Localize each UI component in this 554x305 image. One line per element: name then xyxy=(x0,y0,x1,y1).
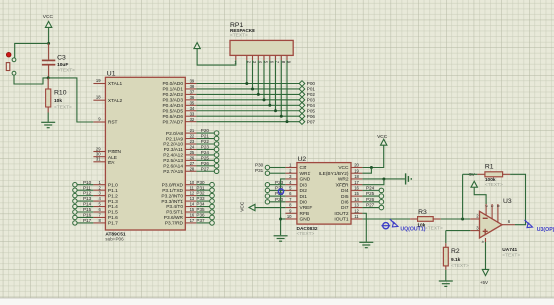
svg-text:P3.6/WR: P3.6/WR xyxy=(164,215,184,221)
U2 pin 10 GND xyxy=(285,214,310,223)
svg-text:10uF: 10uF xyxy=(57,62,68,68)
node junction feedback xyxy=(461,218,464,221)
wire R1 right to output xyxy=(510,174,525,224)
U1 pin 29 PSEN xyxy=(93,146,121,155)
svg-text:sub=P06: sub=P06 xyxy=(105,237,124,242)
svg-text:C3: C3 xyxy=(57,55,66,62)
wire RP1 pin 5 to P03 net xyxy=(263,60,265,100)
svg-text:CS: CS xyxy=(300,165,307,171)
svg-text:P30: P30 xyxy=(196,180,205,185)
svg-text:GND: GND xyxy=(300,177,311,183)
resistor R2 xyxy=(443,231,470,270)
U1 pin 38 P0.1/AD1 wire to terminal P01 xyxy=(162,84,315,93)
U2 pin 13 DI7 xyxy=(341,203,362,212)
svg-text:16: 16 xyxy=(190,213,195,218)
U1 pin 8 P1.7 with terminal P17 xyxy=(73,218,118,227)
wire VCC to button top xyxy=(15,43,49,58)
svg-text:P3.5/T1: P3.5/T1 xyxy=(166,210,183,216)
svg-text:12: 12 xyxy=(190,191,195,196)
svg-text:ALE: ALE xyxy=(108,155,117,161)
svg-text:27: 27 xyxy=(190,161,195,166)
svg-text:U2: U2 xyxy=(298,156,307,163)
U1 pin 27 P2.6/A14 with terminal P26 xyxy=(163,161,219,170)
probe ring on U2 ground wire xyxy=(278,189,283,194)
svg-text:P12: P12 xyxy=(83,191,92,196)
U1 pin 3 P1.2 with terminal P12 xyxy=(73,191,118,200)
svg-text:P00: P00 xyxy=(307,81,316,86)
resistor R3 xyxy=(410,209,443,232)
U1 pin 14 P3.4/T0 with terminal P34 xyxy=(166,202,214,211)
svg-text:+5V: +5V xyxy=(480,280,488,285)
svg-text:R3: R3 xyxy=(418,209,427,216)
svg-text:10k: 10k xyxy=(54,98,62,104)
svg-text:U1: U1 xyxy=(107,70,116,77)
svg-text:15: 15 xyxy=(354,191,359,196)
U2 pin 20 VCC xyxy=(338,163,362,172)
svg-text:35: 35 xyxy=(190,100,195,105)
svg-text:5: 5 xyxy=(496,205,500,207)
U2 pin 6 DI1 xyxy=(285,191,307,200)
U1 pin 24 P2.3/A11 with terminal P23 xyxy=(164,145,219,154)
U1 pin 2 P1.1 with terminal P11 xyxy=(73,185,118,194)
svg-text:<TEXT>: <TEXT> xyxy=(297,231,315,237)
svg-text:21: 21 xyxy=(190,128,195,133)
svg-text:WR1: WR1 xyxy=(300,171,311,177)
svg-text:VCC: VCC xyxy=(43,14,54,20)
svg-text:24: 24 xyxy=(190,145,195,150)
U1 pin 5 P1.4 with terminal P14 xyxy=(73,202,118,211)
svg-text:<TEXT>: <TEXT> xyxy=(425,226,443,232)
svg-text:<TEXT>: <TEXT> xyxy=(57,68,75,74)
svg-text:14: 14 xyxy=(190,202,195,207)
svg-text:DI3: DI3 xyxy=(300,182,308,188)
svg-text:P05: P05 xyxy=(307,108,316,113)
wire GND pin10 branch xyxy=(281,218,286,220)
svg-text:P3.0/RXD: P3.0/RXD xyxy=(162,182,184,188)
U1 pin 7 P1.6 with terminal P16 xyxy=(73,213,118,222)
node junction on P01 xyxy=(251,87,254,90)
U1 pin 1 P1.0 with terminal P10 xyxy=(73,180,118,189)
resistor R10 xyxy=(46,78,72,113)
svg-text:P24: P24 xyxy=(201,150,210,155)
U1 pin 12 P3.2/INT0 with terminal P32 xyxy=(161,191,214,200)
node junction on P05 xyxy=(274,109,277,112)
terminal P23 to U2 DI3 xyxy=(265,180,285,187)
svg-text:R10: R10 xyxy=(54,90,67,97)
wire VCC to U2 VCC pin xyxy=(362,145,383,167)
svg-text:DI1: DI1 xyxy=(300,194,308,200)
svg-text:4: 4 xyxy=(481,241,485,243)
svg-text:P04: P04 xyxy=(307,103,316,108)
svg-text:17: 17 xyxy=(190,218,195,223)
U1 pin 23 P2.2/A10 with terminal P22 xyxy=(163,139,219,148)
svg-text:9.1k: 9.1k xyxy=(451,257,461,263)
svg-text:U3(OP): U3(OP) xyxy=(537,227,554,233)
svg-text:ILE(BY1/BY2): ILE(BY1/BY2) xyxy=(319,171,349,177)
U2 pin 3 GND xyxy=(285,174,310,183)
U2 pin 9 RFB xyxy=(285,208,309,217)
U3 pin 4 V- xyxy=(481,238,486,243)
node junction XFER to WR2 net xyxy=(382,177,385,180)
svg-text:U3: U3 xyxy=(503,198,512,205)
svg-text:P17: P17 xyxy=(83,218,92,223)
U2 pin 15 DI5 xyxy=(341,191,362,200)
U1 pin 15 P3.5/T1 with terminal P35 xyxy=(166,207,214,216)
svg-text:P31: P31 xyxy=(255,168,264,173)
svg-text:IOUT1: IOUT1 xyxy=(334,217,348,223)
svg-text:13: 13 xyxy=(354,203,359,208)
svg-text:10: 10 xyxy=(190,180,195,185)
svg-text:25: 25 xyxy=(190,150,195,155)
svg-text:P2.0/A8: P2.0/A8 xyxy=(166,131,183,137)
svg-text:P2.1/A9: P2.1/A9 xyxy=(166,136,183,142)
U1 pin 39 P0.0/AD0 wire to terminal P00 xyxy=(162,79,315,88)
wire R1 left to inverting node xyxy=(462,174,464,219)
terminal P27 to U2 DI7 xyxy=(362,203,383,210)
node junction ILE to VCC xyxy=(370,166,373,169)
U3 pin 2 inverting input xyxy=(470,214,479,219)
svg-text:P0.5/AD5: P0.5/AD5 xyxy=(162,108,183,114)
svg-text:39: 39 xyxy=(190,79,195,84)
U1 pin 10 P3.0/RXD with terminal P30 xyxy=(162,180,215,189)
terminal P22 to U2 DI2 xyxy=(265,185,285,192)
svg-text:P34: P34 xyxy=(196,202,205,207)
resistor R1 feedback xyxy=(463,163,511,187)
power +5V terminal below U3 pin 4 xyxy=(480,242,489,285)
svg-text:GND: GND xyxy=(300,217,311,223)
capacitor C3 xyxy=(42,43,75,78)
svg-text:UA741: UA741 xyxy=(502,247,517,253)
svg-text:P25: P25 xyxy=(201,155,210,160)
wire R3 to op-amp inverting input xyxy=(441,218,471,220)
U2 pin 14 DI6 xyxy=(341,197,362,206)
svg-text:P37: P37 xyxy=(196,218,205,223)
svg-text:DI7: DI7 xyxy=(341,205,349,211)
terminal P30 to U2 CS xyxy=(255,163,285,170)
ground below R2 xyxy=(439,281,453,286)
U1 pin 28 P2.7/A15 with terminal P27 xyxy=(163,166,219,175)
svg-text:RESPACK8: RESPACK8 xyxy=(230,28,255,33)
svg-text:28: 28 xyxy=(190,166,195,171)
terminal P31 to U2 WR1 xyxy=(255,168,285,175)
svg-text:P22: P22 xyxy=(201,139,210,144)
svg-text:XTAL2: XTAL2 xyxy=(108,98,123,104)
svg-text:P0.0/AD0: P0.0/AD0 xyxy=(162,81,183,87)
svg-text:P03: P03 xyxy=(307,98,316,103)
svg-text:<TEXT>: <TEXT> xyxy=(502,253,520,259)
U2 pin 19 ILE(BY1/BY2) xyxy=(319,168,363,177)
svg-text:P0.6/AD6: P0.6/AD6 xyxy=(162,114,183,120)
ground below IOUT2 xyxy=(359,242,373,247)
svg-text:P1.3: P1.3 xyxy=(108,199,118,205)
resistor pack RP1 RESPACK-8 xyxy=(230,22,293,65)
voltage probe U3(OP) xyxy=(525,220,554,233)
U2 pin 7 DI0 xyxy=(285,197,307,206)
U1 pin 22 P2.1/A9 with terminal P21 xyxy=(166,134,219,143)
svg-text:P30: P30 xyxy=(255,163,264,168)
svg-text:P3.1/TXD: P3.1/TXD xyxy=(162,188,183,194)
U2 pin 1 CS xyxy=(285,163,306,172)
svg-text:P1.4: P1.4 xyxy=(108,204,118,210)
svg-text:P3.2/INT0: P3.2/INT0 xyxy=(161,193,183,199)
node junction at VCC xyxy=(47,42,50,45)
svg-text:33: 33 xyxy=(190,111,195,116)
U1 pin 18 XTAL2 xyxy=(93,95,122,104)
svg-text:P2.7/A15: P2.7/A15 xyxy=(163,169,183,175)
svg-text:17: 17 xyxy=(354,180,359,185)
U3 pin 3 non-inverting input xyxy=(470,225,479,230)
svg-text:DI4: DI4 xyxy=(341,188,349,194)
svg-text:P07: P07 xyxy=(307,119,316,124)
wire RP1 pin 7 to P05 net xyxy=(275,60,277,110)
U2 pin 16 DI4 xyxy=(341,185,362,194)
U2 pin 8 VREF xyxy=(285,203,312,212)
svg-text:VCC: VCC xyxy=(377,134,388,140)
svg-text:16: 16 xyxy=(354,185,359,190)
node junction RST net xyxy=(47,76,50,79)
U1 pin 36 P0.3/AD3 wire to terminal P03 xyxy=(162,95,315,104)
svg-text:DI0: DI0 xyxy=(300,200,308,206)
svg-text:14: 14 xyxy=(354,197,359,202)
power VCC terminal above U2 xyxy=(377,134,388,145)
wire VCC to VREF xyxy=(255,207,285,209)
svg-text:P27: P27 xyxy=(366,203,375,208)
svg-text:R2: R2 xyxy=(451,248,460,255)
wire RP1 pin 4 to P02 net xyxy=(257,60,259,94)
svg-text:P11: P11 xyxy=(83,185,91,190)
current probe UQ(OUT1) xyxy=(381,219,425,232)
svg-text:37: 37 xyxy=(190,90,195,95)
node junction on P03 xyxy=(263,98,266,101)
svg-text:P26: P26 xyxy=(366,197,375,202)
op-amp U3 UA741 body xyxy=(480,198,521,259)
svg-text:DAC0832: DAC0832 xyxy=(297,226,318,232)
wire WR2 to ground xyxy=(362,178,405,180)
U1 pin 31 EA xyxy=(93,157,115,166)
svg-text:P3.4/T0: P3.4/T0 xyxy=(166,204,183,210)
U2 pin 18 WR2 xyxy=(338,174,363,183)
node junction GND pin 10 xyxy=(279,217,282,220)
ground below R10 xyxy=(41,122,55,127)
svg-text:<TEXT>: <TEXT> xyxy=(230,33,248,39)
svg-text:VCC: VCC xyxy=(240,201,246,212)
node junction on P02 xyxy=(257,93,260,96)
svg-text:EA: EA xyxy=(108,160,115,166)
U1 pin 21 P2.0/A8 with terminal P20 xyxy=(166,128,219,137)
power VCC terminal for RP1 xyxy=(194,43,200,49)
svg-text:IOUT2: IOUT2 xyxy=(334,211,348,217)
terminal P25 to U2 DI5 xyxy=(362,191,383,198)
U2 pin 2 WR1 xyxy=(285,168,310,177)
terminal P21 to U2 DI1 xyxy=(265,191,285,198)
svg-text:32: 32 xyxy=(190,117,195,122)
U1 pin 30 ALE xyxy=(93,152,117,161)
U1 pin 34 P0.5/AD5 wire to terminal P05 xyxy=(162,106,315,115)
svg-text:26: 26 xyxy=(190,155,195,160)
wire IOUT2 to ground xyxy=(362,213,366,242)
wire RP1 pin 9 to P07 net xyxy=(286,60,288,121)
svg-text:22: 22 xyxy=(190,134,195,139)
svg-text:P35: P35 xyxy=(196,207,205,212)
U1 pin 26 P2.5/A13 with terminal P25 xyxy=(163,155,219,164)
svg-text:DI5: DI5 xyxy=(341,194,349,200)
U1 pin 16 P3.6/WR with terminal P36 xyxy=(164,213,215,222)
svg-text:P21: P21 xyxy=(201,134,210,139)
svg-text:PSEN: PSEN xyxy=(108,149,122,155)
svg-text:P24: P24 xyxy=(366,185,375,190)
wire R2 to ground xyxy=(445,270,447,281)
svg-text:P15: P15 xyxy=(83,207,92,212)
svg-text:P1.0: P1.0 xyxy=(108,182,118,188)
svg-text:P33: P33 xyxy=(196,196,205,201)
terminal P24 to U2 DI4 xyxy=(362,185,383,192)
svg-text:XTAL1: XTAL1 xyxy=(108,81,123,87)
svg-text:<TEXT>: <TEXT> xyxy=(451,263,469,269)
svg-text:P16: P16 xyxy=(83,213,92,218)
svg-text:P26: P26 xyxy=(201,161,210,166)
wire RST node to U1 RST pin xyxy=(48,78,93,122)
svg-text:P23: P23 xyxy=(201,145,210,150)
U2 pin 5 DI2 xyxy=(285,185,307,194)
svg-text:34: 34 xyxy=(190,106,195,111)
svg-text:P0.1/AD1: P0.1/AD1 xyxy=(162,87,183,93)
node junction on P04 xyxy=(268,104,271,107)
svg-text:P23: P23 xyxy=(275,180,284,185)
svg-text:XFER: XFER xyxy=(336,182,349,188)
node junction on P06 xyxy=(280,115,283,118)
wire button bottom to RST node xyxy=(14,75,48,84)
svg-text:P0.7/AD7: P0.7/AD7 xyxy=(162,119,183,125)
svg-text:P2.5/A13: P2.5/A13 xyxy=(163,158,183,164)
svg-text:P2.3/A11: P2.3/A11 xyxy=(164,147,184,153)
svg-text:13: 13 xyxy=(190,196,195,201)
svg-text:10: 10 xyxy=(287,214,292,219)
svg-text:P0.2/AD2: P0.2/AD2 xyxy=(162,92,183,98)
svg-text:RST: RST xyxy=(108,120,118,126)
ground right of U2 rotated xyxy=(406,173,412,184)
wire XFER to WR2 net xyxy=(362,179,384,185)
svg-text:19: 19 xyxy=(354,168,359,173)
U1 pin 17 P3.7/RD with terminal P37 xyxy=(165,218,214,227)
svg-text:P13: P13 xyxy=(83,196,92,201)
svg-text:R1: R1 xyxy=(485,163,494,170)
wire VCC to RP1 pin 1 xyxy=(197,49,236,65)
wire U2 GND pins to ground xyxy=(281,179,286,235)
U2 pin 12 IOUT2 xyxy=(334,208,362,217)
svg-text:VCC: VCC xyxy=(338,165,349,171)
wire R10 to ground xyxy=(47,113,49,122)
push button xyxy=(6,52,16,75)
terminal P20 to U2 DI0 xyxy=(265,197,285,204)
svg-text:18: 18 xyxy=(96,95,101,100)
svg-text:P32: P32 xyxy=(196,191,205,196)
wire -5V to pin 7 xyxy=(474,187,486,204)
svg-text:P27: P27 xyxy=(201,166,210,171)
svg-text:P20: P20 xyxy=(275,197,284,202)
svg-text:P14: P14 xyxy=(83,202,92,207)
svg-text:P2.6/A14: P2.6/A14 xyxy=(163,164,183,170)
U1 pin 25 P2.4/A12 with terminal P24 xyxy=(163,150,219,159)
svg-text:VREF: VREF xyxy=(300,205,313,211)
U1 pin 33 P0.6/AD6 wire to terminal P06 xyxy=(162,111,315,120)
svg-text:15: 15 xyxy=(190,207,195,212)
svg-text:<TEXT>: <TEXT> xyxy=(54,104,72,110)
U1 pin 37 P0.2/AD2 wire to terminal P02 xyxy=(162,90,315,99)
U2 pin 11 IOUT1 xyxy=(334,214,362,223)
svg-text:P2.4/A12: P2.4/A12 xyxy=(163,153,183,159)
wire RP1 pin 8 to P06 net xyxy=(280,60,282,116)
svg-text:P1.1: P1.1 xyxy=(108,188,118,194)
wire ILE to VCC net xyxy=(362,168,371,174)
node junction on P07 xyxy=(286,120,289,123)
svg-text:P06: P06 xyxy=(307,114,316,119)
svg-text:P0.4/AD4: P0.4/AD4 xyxy=(162,103,183,109)
terminal P26 to U2 DI6 xyxy=(362,197,383,204)
svg-text:P31: P31 xyxy=(196,185,205,190)
svg-text:11: 11 xyxy=(190,185,195,190)
U1 pin 4 P1.3 with terminal P13 xyxy=(73,196,118,205)
svg-text:P01: P01 xyxy=(307,87,316,92)
wire IOUT1 to R3 xyxy=(362,218,410,220)
U1 pin 32 P0.7/AD7 wire to terminal P07 xyxy=(162,117,315,126)
svg-text:P1.6: P1.6 xyxy=(108,215,118,221)
node junction on P00 xyxy=(245,82,248,85)
svg-text:DI6: DI6 xyxy=(341,200,349,206)
svg-text:36: 36 xyxy=(190,95,195,100)
mcu U1 AT89C51 body xyxy=(105,70,185,241)
svg-text:P3.7/RD: P3.7/RD xyxy=(165,221,184,227)
dac U2 DAC0832 body xyxy=(297,156,352,237)
svg-text:23: 23 xyxy=(190,139,195,144)
wire RP1 pin 2 to P00 net xyxy=(246,60,248,83)
svg-text:20: 20 xyxy=(354,163,359,168)
wire RP1 pin 3 to P01 net xyxy=(252,60,254,89)
ground below U2 xyxy=(274,236,288,241)
svg-text:P1.7: P1.7 xyxy=(108,221,118,227)
svg-text:DI2: DI2 xyxy=(300,188,308,194)
power -5V terminal to U3 pin 7 xyxy=(468,172,478,187)
svg-text:11: 11 xyxy=(354,214,359,219)
U1 pin 13 P3.3/INT1 with terminal P33 xyxy=(161,196,214,205)
svg-text:P10: P10 xyxy=(83,180,92,185)
svg-text:RFB: RFB xyxy=(300,211,310,217)
svg-text:P2.2/A10: P2.2/A10 xyxy=(163,142,183,148)
U1 pin 19 XTAL1 xyxy=(93,78,122,87)
U3 top pins 7 1 5 xyxy=(484,204,500,223)
svg-text:31: 31 xyxy=(96,157,101,162)
U2 pin 4 DI3 xyxy=(285,180,307,189)
svg-text:P1.2: P1.2 xyxy=(108,193,118,199)
svg-text:P20: P20 xyxy=(201,128,210,133)
power VCC terminal at U2 VREF xyxy=(240,201,255,212)
svg-text:P25: P25 xyxy=(366,191,375,196)
svg-text:18: 18 xyxy=(354,174,359,179)
svg-text:P1.5: P1.5 xyxy=(108,210,118,216)
svg-text:P36: P36 xyxy=(196,213,205,218)
U2 pin 17 XFER xyxy=(336,180,363,189)
U3 pin 6 output xyxy=(502,219,515,225)
wire RP1 pin 6 to P04 net xyxy=(269,60,271,105)
svg-text:P0.3/AD3: P0.3/AD3 xyxy=(162,98,183,104)
svg-text:38: 38 xyxy=(190,84,195,89)
U1 pin 9 RST xyxy=(93,117,117,126)
power VCC terminal xyxy=(43,14,54,43)
svg-text:12: 12 xyxy=(354,208,359,213)
U1 pin 11 P3.1/TXD with terminal P31 xyxy=(162,185,214,194)
U1 pin 6 P1.5 with terminal P15 xyxy=(73,207,118,216)
svg-text:P3.3/INT1: P3.3/INT1 xyxy=(161,199,183,205)
svg-text:P02: P02 xyxy=(307,92,316,97)
